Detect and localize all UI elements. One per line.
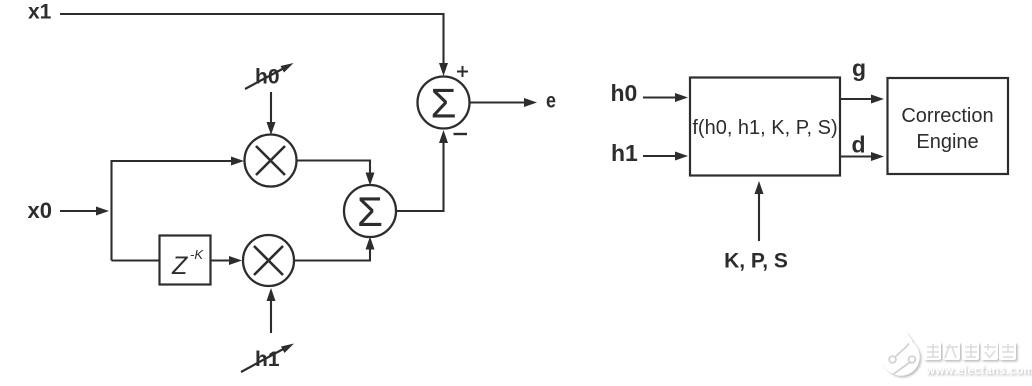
- block Z^-K delay: [160, 236, 211, 285]
- wire delay to multiplier M2: [211, 259, 230, 261]
- watermark logo traces: [889, 344, 915, 375]
- wire M1 to summer S2: [297, 161, 371, 173]
- svg-text:h0: h0: [611, 80, 638, 106]
- wire S2 to summer S1: [396, 143, 444, 211]
- wire K,P,S to f block: [758, 194, 760, 241]
- svg-text:d: d: [852, 132, 866, 158]
- plus sign: [457, 66, 468, 77]
- svg-text:e: e: [546, 89, 556, 113]
- watermark logo: [884, 333, 919, 375]
- svg-text:x0: x0: [28, 198, 52, 223]
- watermark url: [925, 364, 1032, 377]
- svg-text:h1: h1: [611, 140, 638, 166]
- wire d to correction engine: [840, 155, 871, 157]
- multiplier M1: [245, 135, 297, 187]
- node h1-hat label: [241, 344, 294, 373]
- wire g to correction engine: [840, 98, 871, 100]
- block correction engine: [888, 78, 1009, 174]
- block f(h0,h1,K,P,S): [690, 78, 840, 176]
- watermark chinese text: [924, 342, 1016, 360]
- svg-text:h1: h1: [255, 348, 280, 371]
- svg-text:Σ: Σ: [431, 80, 457, 127]
- svg-text:g: g: [852, 55, 866, 81]
- svg-text:K, P, S: K, P, S: [724, 250, 788, 273]
- svg-text:Engine: Engine: [916, 131, 978, 153]
- summer S1: [418, 77, 470, 129]
- wire h1 to f block: [643, 155, 675, 157]
- svg-text:f(h0, h1, K, P, S): f(h0, h1, K, P, S): [692, 117, 837, 139]
- wire branch to M1: [112, 161, 232, 261]
- wire x1 to summer S1: [60, 14, 444, 63]
- summer S2: [344, 185, 396, 237]
- svg-text:Z: Z: [171, 252, 188, 280]
- wire M2 to summer S2: [294, 250, 370, 261]
- wire x0 input: [60, 210, 96, 212]
- node h0-hat label: [245, 63, 294, 89]
- svg-text:-K: -K: [190, 247, 204, 262]
- wire h0 to f block: [643, 96, 675, 98]
- multiplier M2: [243, 235, 294, 286]
- svg-text:Σ: Σ: [357, 188, 383, 235]
- wire e output: [470, 101, 524, 103]
- minus sign: [454, 133, 468, 135]
- wire branch to delay: [112, 259, 160, 261]
- wire h1-hat to multiplier M2: [270, 301, 272, 333]
- svg-text:x1: x1: [28, 1, 52, 24]
- svg-text:Correction: Correction: [901, 105, 993, 127]
- wire h0-hat to multiplier M1: [270, 92, 272, 122]
- svg-text:www.elecfans.com: www.elecfans.com: [925, 364, 1032, 377]
